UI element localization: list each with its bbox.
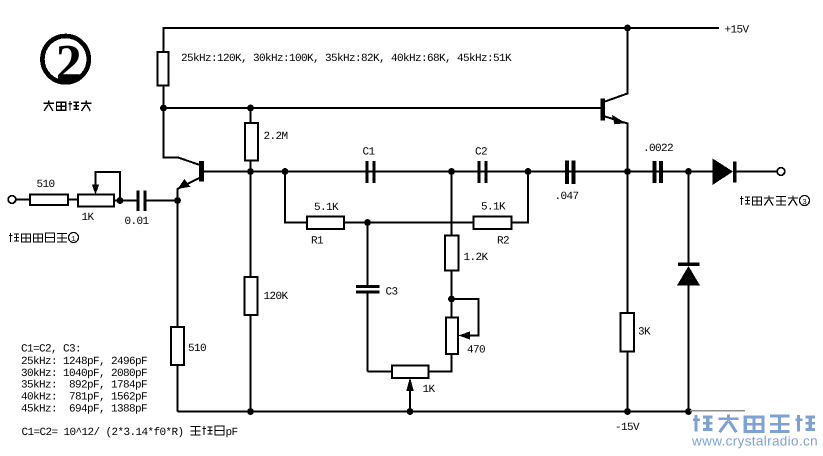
svg-text:C2: C2 [475, 147, 487, 159]
label 选频放大 [44, 101, 92, 111]
wire 120K top leg [250, 172, 252, 278]
svg-text:25kHz: 1248pF, 2496pF: 25kHz: 1248pF, 2496pF [21, 356, 147, 368]
svg-text:.0022: .0022 [643, 143, 673, 155]
resistor 120K [245, 277, 258, 315]
svg-text:R1: R1 [311, 236, 324, 248]
wire 1.2K to 470 [451, 271, 453, 318]
node bottom rail 1K wiper [407, 408, 414, 415]
label 接混频电路(1) [9, 233, 67, 243]
node top-rail / Q2 collector junction [624, 25, 631, 32]
diode D1 triangle [713, 159, 734, 186]
node rail C / 1.2K branch [448, 168, 455, 175]
svg-text:1K: 1K [423, 384, 436, 396]
wire 0.01 to Q1 emitter [147, 200, 178, 202]
node rail C / Q2 emitter [624, 168, 631, 175]
wire Rtop bottom leg [163, 86, 165, 109]
node 470 wiper junction [448, 296, 455, 303]
svg-text:2: 2 [56, 35, 82, 92]
resistor 510 input [30, 195, 68, 206]
svg-text:C1=C2= 10^12/ (2*3.14*f0*R): C1=C2= 10^12/ (2*3.14*f0*R) [22, 427, 184, 439]
terminal output circle [777, 168, 785, 176]
svg-text:.047: .047 [555, 191, 579, 203]
svg-text:5.1K: 5.1K [481, 202, 506, 214]
svg-text:R2: R2 [497, 236, 509, 248]
transistor Q1 emitter arrow [178, 179, 191, 189]
diode D2 cathode bar [678, 263, 700, 267]
wire C3 branch lower [367, 294, 369, 372]
watermark 矿石收音机 [693, 414, 815, 432]
capacitor 0.01 [137, 191, 140, 212]
diode D2 triangle [677, 266, 700, 286]
svg-text:470: 470 [467, 345, 485, 357]
transistor Q1 emitter wire [178, 178, 201, 201]
svg-text:30kHz: 1040pF, 2080pF: 30kHz: 1040pF, 2080pF [21, 368, 147, 380]
capacitor .047 [565, 161, 569, 185]
svg-text:45kHz: 694pF, 1388pF: 45kHz: 694pF, 1388pF [21, 404, 147, 416]
wire 470 wiper loop [452, 299, 479, 336]
wire pot to cap 0.01 [114, 200, 137, 202]
wire D2 top leg [688, 172, 690, 264]
svg-text:510: 510 [37, 179, 55, 191]
svg-text:C3: C3 [386, 287, 398, 299]
svg-text:1: 1 [71, 236, 76, 244]
wire D1 to output terminal [737, 171, 777, 173]
node bottom rail 120K [247, 408, 254, 415]
svg-text:1K: 1K [82, 212, 95, 224]
node rail C / 2.2M bottom [247, 168, 254, 175]
transistor Q2 base bar [601, 99, 606, 121]
svg-text:3K: 3K [638, 327, 651, 339]
svg-text:40kHz: 781pF, 1562pF: 40kHz: 781pF, 1562pF [21, 392, 147, 404]
capacitor .0022 [652, 161, 656, 183]
capacitor C1 [366, 161, 369, 183]
wire 2.2M legs [250, 108, 252, 172]
svg-text:pF: pF [226, 427, 238, 439]
svg-text:-15V: -15V [615, 422, 640, 434]
label 接波形整形(3) [740, 196, 798, 206]
node pot wiper junction [117, 197, 124, 204]
svg-text:C1=C2, C3:: C1=C2, C3: [21, 344, 81, 356]
svg-text:2.2M: 2.2M [264, 131, 288, 143]
diode D1 cathode bar [733, 162, 737, 183]
wire 510 to pot [68, 199, 78, 201]
potentiometer 1K bottom wiper arrow [406, 378, 414, 392]
capacitor C3 [356, 285, 380, 288]
resistor 1.2K [445, 236, 459, 271]
transistor Q1 collector wire [164, 108, 201, 165]
potentiometer 470 wiper arrow [459, 331, 471, 339]
node rail C / R1 branch [282, 168, 289, 175]
wire 510 to bottom rail [177, 365, 179, 412]
stage marker circled 2 [42, 36, 88, 82]
resistor R2 5.1K [474, 217, 512, 230]
transistor Q2 emitter arrow [612, 115, 626, 125]
node rail C / R2 riser [525, 168, 532, 175]
transistor Q1 base bar [199, 161, 204, 182]
node rail D / C3 branch [364, 219, 371, 226]
wire rail C signal line [204, 171, 713, 173]
node rail B left [160, 105, 167, 112]
node bottom rail diode [685, 408, 692, 415]
potentiometer 1K bottom body [392, 366, 429, 379]
wire input to 510 [16, 199, 30, 201]
wire rail B (base rail) [164, 107, 601, 109]
wire pot 1K to C3 leg [368, 371, 393, 373]
wire D2 bottom leg [688, 286, 690, 412]
svg-text:120K: 120K [264, 291, 289, 303]
resistor Rtop (frequency-select resistor) [158, 52, 169, 86]
node rail B / 2.2M top [247, 105, 254, 112]
wire 3K bottom leg [627, 352, 629, 412]
wire bottom rail -15V [178, 411, 689, 413]
svg-text:35kHz: 892pF, 1784pF: 35kHz: 892pF, 1784pF [21, 380, 147, 392]
svg-text:www.crystalradio.cn: www.crystalradio.cn [691, 434, 818, 449]
resistor R1 5.1K [307, 217, 344, 230]
svg-text:510: 510 [188, 343, 206, 355]
resistor 2.2M [245, 123, 258, 161]
wire top rail +15V [164, 28, 720, 52]
svg-text:25kHz:120K, 30kHz:100K, 35kHz:: 25kHz:120K, 30kHz:100K, 35kHz:82K, 40kHz… [181, 53, 512, 65]
terminal input circle [8, 196, 16, 204]
svg-text:+15V: +15V [725, 25, 750, 37]
wire R2 to riser [512, 172, 529, 223]
potentiometer 1K wiper arrow [92, 185, 99, 195]
transistor Q2 emitter wire [605, 117, 628, 172]
watermark gray line [690, 410, 745, 412]
transistor Q2 collector wire [605, 28, 628, 102]
wire emitter down to 510 [177, 201, 179, 328]
wire 470 bottom leg [429, 354, 452, 372]
node rail C / diode branch [685, 168, 692, 175]
wire R1 branch down [285, 172, 307, 223]
wire 1.2K branch down [451, 172, 453, 236]
wire C3 branch upper [367, 223, 369, 286]
svg-text:5.1K: 5.1K [314, 202, 339, 214]
resistor 510 emitter [171, 327, 184, 365]
wire 120K bottom leg [250, 315, 252, 412]
wire 1K wiper to bottom rail [409, 388, 411, 412]
node bottom rail 3K [624, 408, 631, 415]
wire rail D middle [344, 222, 474, 224]
potentiometer 470 body [446, 318, 458, 355]
svg-text:1.2K: 1.2K [464, 252, 489, 264]
potentiometer 1K input body [78, 195, 114, 207]
node Q1 emitter junction [174, 197, 181, 204]
svg-text:C1: C1 [363, 147, 376, 159]
svg-text:3: 3 [802, 198, 807, 207]
svg-text:0.01: 0.01 [125, 216, 150, 228]
wire 3K top leg [627, 172, 629, 314]
resistor 3K [621, 313, 635, 352]
wire 1K wiper loop [96, 172, 121, 201]
capacitor C2 [478, 161, 481, 183]
